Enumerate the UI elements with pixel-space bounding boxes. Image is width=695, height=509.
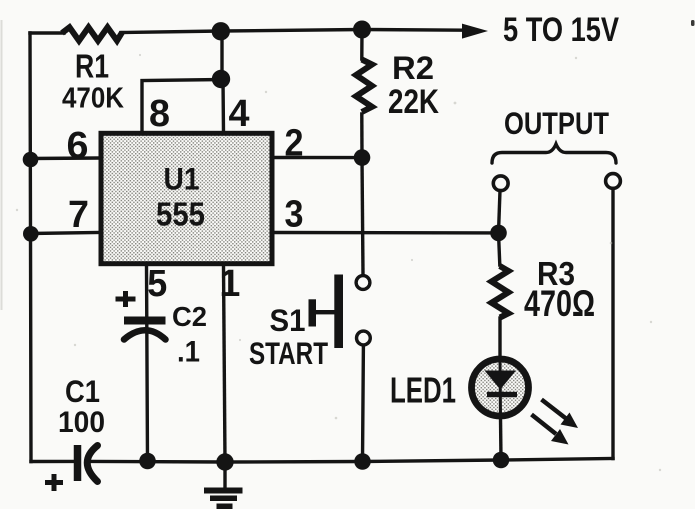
switch S1 handle <box>309 299 317 326</box>
wire pin4 drop from top rail <box>220 31 223 80</box>
wire top rail R1 to arrow <box>121 30 464 33</box>
wire bottom rail right of C1 <box>92 459 613 463</box>
LED1 anode wire <box>499 358 503 417</box>
power arrow <box>462 24 488 39</box>
svg-text:3: 3 <box>285 193 304 235</box>
wire left output terminal stub <box>499 191 501 233</box>
LED1 cathode bar <box>487 392 517 397</box>
wire right rail <box>611 189 614 459</box>
capacitor C1 plate <box>74 445 82 481</box>
svg-text:6: 6 <box>67 125 89 167</box>
svg-text:.1: .1 <box>177 336 200 369</box>
svg-text:R2: R2 <box>392 50 434 86</box>
svg-text:R1: R1 <box>75 48 109 85</box>
output terminal left <box>493 176 508 191</box>
switch S1 stem <box>316 310 335 314</box>
wire pin4 lead <box>221 80 225 134</box>
wire switch column lower <box>361 347 365 462</box>
svg-text:2: 2 <box>285 122 304 164</box>
wire pin3 lead to R3 node <box>274 231 498 235</box>
svg-text:U1: U1 <box>164 161 200 197</box>
ground <box>204 488 243 509</box>
LED light arrow 1 <box>542 400 579 429</box>
junction dot bottom switch <box>354 453 371 470</box>
wire left rail <box>30 33 31 462</box>
svg-text:470K: 470K <box>62 83 124 115</box>
junction dot top rail R2 <box>353 21 371 39</box>
output terminal right <box>606 174 621 189</box>
junction dot pin2/R2 <box>354 149 371 166</box>
capacitor C2 top plate <box>124 317 166 325</box>
resistor R1 <box>62 27 122 40</box>
junction dot left rail pin6 <box>23 152 39 168</box>
wire pin1 column <box>224 266 226 462</box>
capacitor C1 plus sign <box>45 474 63 491</box>
wire LED bottom lead <box>499 417 503 460</box>
svg-text:C2: C2 <box>172 301 207 332</box>
svg-text:22K: 22K <box>388 83 439 121</box>
switch S1 contact bottom <box>357 331 371 345</box>
wire ground stub <box>223 462 226 488</box>
switch S1 button bar <box>334 275 343 349</box>
wire pin8 L-lead <box>142 80 222 134</box>
wire R2 bottom lead <box>360 114 364 158</box>
LED1 triangle <box>485 371 517 390</box>
wire pin2 lead <box>274 156 362 160</box>
junction dot bottom C2 <box>139 453 156 470</box>
wire switch column upper <box>362 158 363 274</box>
switch S1 contact top <box>356 276 370 290</box>
svg-text:OUTPUT: OUTPUT <box>504 105 609 141</box>
wire R3 top lead <box>499 233 500 265</box>
svg-text:7: 7 <box>68 194 89 236</box>
junction dot bottom ground <box>216 453 233 470</box>
wire top rail left of R1 <box>30 31 64 34</box>
op-amp U1 555 IC body <box>101 133 272 263</box>
capacitor C2 plus sign <box>116 291 136 307</box>
LED light arrow 2 <box>532 415 569 445</box>
wire R3 bottom lead <box>498 318 501 358</box>
junction dot pin3/R3 <box>490 225 507 242</box>
svg-text:555: 555 <box>156 197 205 234</box>
svg-text:8: 8 <box>149 93 170 135</box>
svg-text:START: START <box>249 335 328 371</box>
wire pin7 lead <box>31 233 99 234</box>
resistor R2 <box>356 60 372 113</box>
svg-text:5 TO 15V: 5 TO 15V <box>503 11 619 49</box>
LED1 body <box>472 359 529 416</box>
wire R2 top lead <box>360 30 364 60</box>
capacitor C1 curved plate <box>87 446 97 482</box>
wire pin6 lead <box>31 156 100 160</box>
resistor R3 <box>492 266 509 318</box>
svg-text:4: 4 <box>229 93 250 135</box>
wire pin5 column <box>147 266 148 461</box>
brace <box>492 144 616 163</box>
capacitor C2 curved plate <box>124 330 166 339</box>
junction dot top rail pin4 <box>212 22 230 40</box>
junction dot bottom LED <box>493 452 510 469</box>
svg-text:LED1: LED1 <box>390 370 456 411</box>
svg-text:1: 1 <box>219 263 240 305</box>
svg-text:5: 5 <box>147 263 167 305</box>
svg-text:C1: C1 <box>65 373 100 409</box>
junction dot left rail pin7 <box>23 226 39 242</box>
svg-text:S1: S1 <box>270 302 306 338</box>
svg-text:100: 100 <box>58 406 105 439</box>
wire bottom rail left of C1 <box>31 460 75 464</box>
svg-text:470Ω: 470Ω <box>524 283 595 324</box>
junction dot pin8/pin4 <box>212 70 230 88</box>
